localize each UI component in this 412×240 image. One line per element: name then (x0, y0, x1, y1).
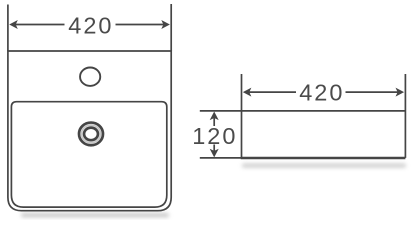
drain gap tint ring (82, 125, 101, 143)
faucet hole circle (80, 68, 100, 86)
arrowhead right (420 side) (396, 88, 405, 97)
dimension line 420 top right segment (116, 24, 164, 26)
side view bottom edge + left extension (120) (200, 157, 242, 159)
side view top edge + left extension (120) (200, 110, 406, 112)
arrowhead up (120) (210, 112, 219, 121)
dimension line 120 upper segment (213, 118, 215, 127)
arrowhead down (120) (210, 149, 219, 158)
svg-text:420: 420 (68, 13, 113, 39)
side view right edge + extension (420 side) (404, 74, 406, 158)
arrowhead left (420 top) (9, 20, 18, 29)
drain inner circle (84, 128, 98, 141)
bowl inner outline (rounded rect) (11, 102, 166, 207)
arrowhead left (420 side) (243, 88, 252, 97)
shadow under side view (242, 164, 406, 168)
dimension line 420 side right segment (346, 91, 399, 93)
shadow under top view (21, 213, 169, 217)
top view outer outline (8, 51, 171, 211)
drain outer circle (79, 123, 103, 146)
dimension line 420 top left segment (16, 24, 65, 26)
dimension line 420 side left segment (249, 91, 296, 93)
arrowhead right (420 top) (161, 20, 170, 29)
side view bottom edge (thick) (241, 157, 406, 159)
side view left edge + extension (420 side) (241, 74, 243, 158)
svg-text:120: 120 (192, 123, 237, 149)
extension line left (420 top) (7, 5, 9, 52)
svg-text:420: 420 (299, 80, 344, 106)
extension line right (420 top) (170, 4, 172, 51)
dimension line 120 lower segment (213, 145, 215, 152)
